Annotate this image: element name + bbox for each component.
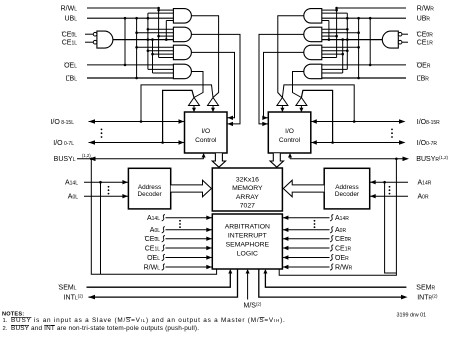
- junction V2L-CEL output crossing: [147, 38, 150, 41]
- stub V3L to G3L: [153, 53, 174, 55]
- stub V2R to G3R: [322, 50, 348, 52]
- wire G2L output to I/O control right side: [191, 34, 240, 124]
- and-gate G4L: [173, 64, 191, 79]
- wire A14L into address decoder: [84, 181, 128, 183]
- wire G2R output to I/O control left side: [259, 34, 304, 124]
- svg-text:A14R: A14R: [335, 215, 349, 222]
- wire arbitration input right row: [282, 266, 329, 268]
- wire G3R output to I/O control left side: [264, 52, 304, 117]
- wire BUSYR up into I/O control: [289, 156, 291, 159]
- wire LBR horizontal into gate G4R: [322, 77, 406, 79]
- buffer T2R (input driver): [296, 98, 307, 106]
- wire CEL output to G2L bottom input: [113, 39, 173, 41]
- wire I/O 8-15L bidirectional line: [89, 121, 185, 123]
- bus arrow Address Decoder right to memory: [283, 180, 324, 197]
- dots ellipsis between A14R/A0R: [389, 186, 391, 188]
- svg-text:MEMORY: MEMORY: [232, 185, 263, 192]
- stub V2L to G2L: [148, 28, 174, 30]
- wire UBL-left horizontal into gate G1L: [87, 17, 173, 19]
- svg-text:2.: 2.: [3, 326, 8, 332]
- svg-text:I/O: I/O: [285, 128, 294, 135]
- bubble CE0L input: [93, 32, 97, 36]
- svg-text:A14R: A14R: [418, 180, 432, 187]
- svg-text:I/O0-7R: I/O0-7R: [417, 140, 438, 147]
- wire BUSYR branch down-left: [279, 159, 396, 275]
- wire A14L branch down to arbitration: [100, 182, 102, 274]
- svg-text:A0R: A0R: [418, 194, 429, 201]
- junction BUSYL branch: [90, 158, 93, 161]
- wire V1L vertical (UB rail long): [136, 18, 138, 78]
- svg-text:A0R: A0R: [335, 227, 346, 234]
- junction V2R-CER output crossing: [346, 38, 349, 41]
- wire CE0R stub: [402, 33, 408, 35]
- svg-text:CE1R: CE1R: [417, 40, 434, 47]
- svg-text:UBL: UBL: [64, 16, 77, 23]
- wire UBR horizontal into gate G1R: [322, 17, 406, 19]
- block I/O Control left: [185, 112, 228, 153]
- stub V4L to G3L: [159, 57, 174, 59]
- wire BUSYR line: [290, 158, 403, 160]
- block Address Decoder left: [128, 168, 170, 209]
- wire V3L vertical (CE rail): [152, 40, 154, 73]
- wire BUSYL branch down-left: [91, 159, 216, 274]
- junction V3R-CER output: [341, 38, 344, 41]
- junction V2R-UBR: [346, 17, 349, 20]
- dots ellipsis arbitration rows left: [179, 220, 181, 222]
- and-gate G1R: [304, 9, 322, 23]
- block 32Kx16 Memory Array 7027: [212, 168, 282, 211]
- junction riser-I/O0-7R: [331, 141, 334, 144]
- junction V5L-CEL output: [165, 38, 168, 41]
- break squiggle: [330, 245, 333, 251]
- junction V3L-G3L: [151, 53, 154, 56]
- junction V5R-CER output: [328, 38, 331, 41]
- junction V1L-G2L: [135, 31, 138, 34]
- svg-text:7027: 7027: [240, 203, 255, 210]
- stub V2R to G2R: [322, 28, 348, 30]
- stub V2L to G4L: [148, 68, 174, 70]
- and-gate G2R: [304, 27, 322, 42]
- wire I/O8-15L riser to buffer T2L: [141, 85, 213, 122]
- wire CER output to G2R bottom input: [322, 39, 383, 41]
- svg-text:M/S(2): M/S(2): [244, 301, 262, 310]
- junction V4R-R/WR: [335, 7, 338, 10]
- junction V1R-LBR: [357, 77, 360, 80]
- wire M/S line and up-arrow into arbitration: [247, 271, 249, 300]
- svg-text:SEML: SEML: [59, 285, 77, 292]
- svg-text:1.: 1.: [3, 318, 8, 324]
- junction V1R-G3R: [357, 46, 360, 49]
- junction V2L-G2L: [147, 28, 150, 31]
- svg-text:UBR: UBR: [417, 16, 431, 23]
- bubble CE0R input: [398, 32, 402, 36]
- svg-text:R/WR: R/WR: [417, 6, 435, 13]
- junction V4L-G1L: [157, 9, 160, 12]
- svg-text:CE1R: CE1R: [335, 245, 352, 252]
- svg-text:ARRAY: ARRAY: [236, 194, 259, 201]
- junction V1L-UBL: [135, 17, 138, 20]
- wire V1R vertical: [358, 18, 360, 78]
- wire LBL-left horizontal into gate G4L: [87, 77, 173, 79]
- svg-text:CE0R: CE0R: [335, 236, 352, 243]
- dots ellipsis between A14L/A0L: [108, 186, 110, 188]
- bus arrow I/O control left to memory array: [212, 153, 225, 167]
- buffer T2L (input driver): [208, 98, 219, 106]
- break squiggle: [330, 236, 333, 242]
- stub V2R to G1R: [322, 12, 348, 14]
- stub V4R to G1R: [322, 9, 337, 11]
- dots ellipsis between I/O lines right: [391, 129, 393, 131]
- svg-text:I/O 0-7L: I/O 0-7L: [53, 140, 74, 147]
- junction V4L-G2L: [157, 35, 160, 38]
- svg-text:LBL: LBL: [66, 76, 78, 83]
- wire buffer output into I/O control: [193, 106, 195, 109]
- svg-text:SEMR: SEMR: [416, 285, 435, 292]
- wire BUSYL line: [77, 158, 204, 160]
- junction riser-I/O8-15R: [353, 120, 356, 123]
- svg-text:I/O8-15R: I/O8-15R: [417, 119, 440, 126]
- wire A0L into address decoder: [84, 195, 128, 197]
- junction V0L-UBL: [124, 17, 127, 20]
- svg-text:ARBITRATION: ARBITRATION: [225, 224, 270, 231]
- svg-text:BUSY and INT are non-tri-state: BUSY and INT are non-tri-state totem-pol…: [11, 325, 199, 332]
- svg-text:Control: Control: [195, 137, 217, 144]
- svg-text:BUSYL: BUSYL: [54, 156, 76, 163]
- wire V5L vertical (CE to G1L): [165, 21, 167, 40]
- and-gate G2L: [173, 27, 191, 42]
- dots ellipsis arbitration rows right: [314, 220, 316, 222]
- wire G1L output to buffer T2L: [191, 16, 218, 98]
- wire CE0L stub: [85, 33, 93, 35]
- wire V0R vertical (UB-OE rail): [369, 18, 371, 65]
- break squiggle: [330, 254, 333, 260]
- svg-text:R/WL: R/WL: [144, 264, 161, 271]
- wire V2R vertical: [346, 13, 348, 69]
- wire V5R vertical: [328, 21, 330, 40]
- stub V1L to G3L: [137, 46, 174, 48]
- svg-text:OER: OER: [417, 62, 431, 69]
- junction V3R-G3R: [341, 53, 344, 56]
- wire I/O 0-7L bidirectional line: [89, 142, 185, 144]
- junction A14L branch: [99, 181, 102, 184]
- svg-text:INTR(2): INTR(2): [417, 293, 438, 302]
- junction V0R-OER: [369, 64, 372, 67]
- break squiggle: [162, 236, 165, 242]
- and-gate G4R: [304, 64, 322, 79]
- junction BUSYR branch: [395, 158, 398, 161]
- svg-text:OEL: OEL: [64, 62, 77, 69]
- stub V1R to G3R: [322, 46, 359, 48]
- svg-text:INTL(2): INTL(2): [64, 293, 84, 302]
- wire arbitration input right row: [282, 229, 329, 231]
- bubble CE1L input: [93, 40, 97, 44]
- junction V1L-G3L: [135, 46, 138, 49]
- wire arbitration input right row: [282, 217, 329, 219]
- svg-text:BUSYR(1,2): BUSYR(1,2): [416, 155, 448, 164]
- junction V4R-G1R: [335, 9, 338, 12]
- stub V2R to G4R: [322, 68, 348, 70]
- svg-text:R/WR: R/WR: [335, 264, 353, 271]
- wire R/WR horizontal: [337, 7, 406, 9]
- wire arbitration input left row: [166, 266, 213, 268]
- svg-text:32Kx16: 32Kx16: [236, 176, 259, 183]
- wire I/O 0-7R bidirectional line: [311, 142, 399, 144]
- wire I/O0-7R riser to buffer T2R: [301, 90, 332, 142]
- block Arbitration Interrupt Semaphore Logic: [212, 214, 282, 269]
- bus arrow Address Decoder left to memory: [171, 180, 212, 197]
- svg-text:BUSY is an input as a Slave (M: BUSY is an input as a Slave (M/S=VIL) an…: [11, 317, 286, 324]
- wire arbitration input left row: [166, 238, 213, 240]
- svg-text:R/WL: R/WL: [61, 6, 78, 13]
- stub V3R to G4R: [322, 72, 343, 74]
- wire G4L output to buffer T1L: [191, 71, 203, 97]
- wire OEL-left horizontal into gate G4L: [87, 64, 173, 66]
- svg-text:LOGIC: LOGIC: [237, 251, 258, 258]
- block Address Decoder right: [324, 168, 370, 209]
- stub V4R to G3R: [322, 57, 337, 59]
- junction V0R-UBR: [369, 17, 372, 20]
- wire V4L vertical (R/W rail 2): [158, 8, 160, 58]
- stub V4R to G2R: [322, 35, 337, 37]
- junction riser-I/O8-15L: [140, 120, 143, 123]
- break squiggle: [162, 264, 165, 270]
- wire I/O8-15R riser to buffer T1R: [282, 85, 354, 122]
- stub V2L to G3L: [148, 50, 174, 52]
- junction V1R-UBR: [357, 17, 360, 20]
- wire I/O 8-15R bidirectional line: [311, 121, 399, 123]
- and-gate G1L: [173, 9, 191, 23]
- junction V4R-G2R: [335, 35, 338, 38]
- buffer T1R (input driver): [277, 98, 288, 106]
- svg-text:I/O: I/O: [201, 128, 210, 135]
- break squiggle: [162, 254, 165, 260]
- wire A14R branch down joining busy return: [385, 182, 397, 273]
- svg-text:OER: OER: [335, 255, 349, 262]
- wire G3L output to I/O control right side: [191, 52, 234, 117]
- svg-text:SEMAPHORE: SEMAPHORE: [226, 242, 270, 249]
- wire I/O0-7L riser to buffer T1L: [163, 90, 194, 142]
- gate CER (chip enable AND) U1R: [382, 31, 398, 48]
- svg-text:Decoder: Decoder: [137, 191, 162, 198]
- buffer T1L (input driver): [189, 98, 200, 106]
- wire buffer output into I/O control: [212, 106, 214, 109]
- gate CEL (chip enable AND) U1L: [97, 31, 113, 48]
- svg-text:OEL: OEL: [147, 255, 160, 262]
- wire arbitration input left row: [166, 217, 213, 219]
- svg-text:CE0L: CE0L: [145, 236, 161, 243]
- wire arbitration input right row: [282, 247, 329, 249]
- svg-text:Address: Address: [138, 184, 161, 191]
- junction V2R-G3R: [346, 49, 349, 52]
- wire arbitration input right row: [282, 238, 329, 240]
- stub V5R to G1R: [322, 20, 329, 22]
- junction V2R-G2R: [346, 28, 349, 31]
- wire OER horizontal into gate G4R: [322, 64, 406, 66]
- wire G4R output to buffer T2R: [293, 71, 304, 97]
- svg-text:A14L: A14L: [65, 180, 78, 187]
- dots ellipsis between I/O lines left: [101, 129, 103, 131]
- stub V3R to G3R: [322, 53, 343, 55]
- and-gate G3R: [304, 45, 322, 60]
- stub V3L to G4L: [153, 72, 174, 74]
- wire BUSYL up into I/O control: [203, 156, 205, 159]
- svg-text:A0L: A0L: [150, 227, 160, 234]
- junction V2L-G3L: [147, 49, 150, 52]
- stub V1L to G2L: [137, 32, 174, 34]
- break squiggle: [330, 215, 333, 221]
- block I/O Control right: [268, 112, 311, 153]
- junction A14R branch: [383, 181, 386, 184]
- wire R/WL-left horizontal: [87, 7, 159, 9]
- svg-text:CE1L: CE1L: [145, 245, 161, 252]
- svg-text:3199 drw 01: 3199 drw 01: [397, 312, 427, 318]
- wire V2L vertical (UB rail): [147, 13, 149, 69]
- stub V5L to G1L: [166, 20, 173, 22]
- svg-text:A14L: A14L: [147, 215, 160, 222]
- junction V0L-OEL: [124, 64, 127, 67]
- break squiggle: [330, 227, 333, 233]
- and-gate G3L: [173, 45, 191, 60]
- bus arrow I/O control right to memory array: [270, 153, 283, 167]
- wire arbitration input right row: [282, 257, 329, 259]
- label BUSYL note superscript: [82, 153, 89, 158]
- svg-text:LBR: LBR: [417, 76, 430, 83]
- svg-text:CE0L: CE0L: [62, 32, 78, 39]
- junction riser-I/O0-7L: [161, 141, 164, 144]
- svg-text:Address: Address: [335, 184, 358, 191]
- stub V4L to G1L: [159, 9, 174, 11]
- stub V2L to G1L: [148, 12, 174, 14]
- wire SEML line and up-arrow into arbitration: [87, 271, 231, 287]
- svg-text:Control: Control: [279, 137, 301, 144]
- wire A0R into address decoder: [370, 195, 408, 197]
- wire INTR line from arbitration with right arrow: [259, 269, 401, 297]
- bubble CE1R input: [398, 40, 402, 44]
- wire G1R output to buffer T1R: [278, 16, 304, 98]
- junction V4L-R/WL: [157, 7, 160, 10]
- svg-text:(1,2): (1,2): [82, 153, 91, 158]
- junction V3L-CEL output: [151, 38, 154, 41]
- svg-text:A0L: A0L: [68, 194, 78, 201]
- junction V1L-LBL: [135, 77, 138, 80]
- wire buffer output into I/O control: [281, 106, 283, 109]
- junction V1R-G2R: [357, 31, 360, 34]
- wire V3R vertical: [342, 40, 344, 73]
- svg-text:Decoder: Decoder: [335, 191, 360, 198]
- break squiggle: [162, 227, 165, 233]
- junction V2L-UBL: [147, 17, 150, 20]
- break squiggle: [330, 264, 333, 270]
- wire INTL line from arbitration with left arrow: [89, 269, 238, 297]
- svg-text:CE1L: CE1L: [62, 40, 78, 47]
- wire CE1L stub: [85, 41, 93, 43]
- wire arbitration input left row: [166, 247, 213, 249]
- wire A14R into address decoder: [370, 181, 408, 183]
- wire V4R vertical: [336, 8, 338, 58]
- wire V0L vertical (UB-OE rail): [124, 18, 126, 65]
- wire arbitration input left row: [166, 257, 213, 259]
- wire buffer output into I/O control: [300, 106, 302, 109]
- svg-text:I/O 8-15L: I/O 8-15L: [50, 119, 74, 126]
- wire arbitration input left row: [166, 229, 213, 231]
- stub V1R to G2R: [322, 32, 359, 34]
- svg-text:CE0R: CE0R: [417, 32, 434, 39]
- wire CE1R stub: [402, 41, 408, 43]
- wire SEMR line and up-arrow into arbitration: [265, 271, 406, 287]
- svg-text:INTERRUPT: INTERRUPT: [228, 233, 267, 240]
- break squiggle: [162, 215, 165, 221]
- stub V4L to G2L: [159, 35, 174, 37]
- break squiggle: [162, 245, 165, 251]
